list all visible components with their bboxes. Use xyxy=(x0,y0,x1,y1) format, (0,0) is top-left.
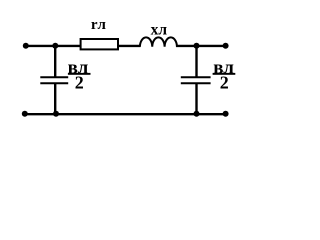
svg-text:2: 2 xyxy=(220,73,229,93)
svg-text:xл: xл xyxy=(151,21,168,38)
svg-text:rл: rл xyxy=(91,17,107,33)
svg-text:2: 2 xyxy=(75,73,84,93)
